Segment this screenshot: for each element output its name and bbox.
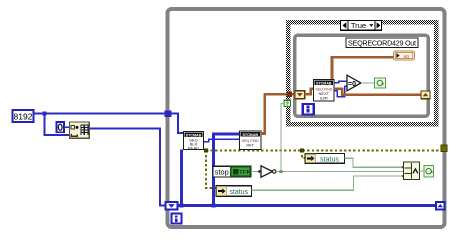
junction dot (43, 112, 47, 116)
label SEQRECORD429 Out (346, 38, 418, 48)
junction dot B (212, 204, 216, 208)
svg-text:STCMAB: STCMAB (242, 132, 258, 137)
error wire dashed horizontal (206, 149, 441, 151)
node U3 STCMAB SEQ FIND NEXT (314, 80, 335, 102)
shift register left (inner, orange) (295, 91, 305, 99)
tunnel brown on case border (286, 92, 292, 98)
svg-text:STCMAB: STCMAB (186, 132, 202, 137)
constant 0 (57, 122, 65, 132)
wire node3 brown output to right shift register (334, 89, 421, 95)
svg-text:8192: 8192 (14, 112, 33, 122)
iteration terminal i (inner) (303, 104, 314, 115)
svg-text:TF: TF (239, 170, 246, 176)
wire up to node2 (214, 134, 240, 206)
error tunnel on right border (441, 145, 447, 152)
wire init-array output down to left shift register (89, 129, 165, 206)
tunnel (8192 into loop) (165, 110, 172, 117)
junction dot error2 (300, 149, 304, 153)
iteration terminal i (outer) (172, 214, 182, 224)
wire status1 to compound AND (252, 176, 404, 190)
svg-text:status: status (229, 189, 248, 196)
wire NOT output to compound AND (276, 171, 404, 173)
error wire branch to status1 (206, 150, 216, 188)
svg-text:True: True (351, 21, 366, 30)
comparator =0? (347, 75, 361, 91)
wire node3 upper output to comparator (blue) (334, 81, 347, 83)
wire branch down to init node (45, 114, 70, 136)
wire node3 lower output to comparator (blue) (334, 86, 347, 97)
svg-text:=0: =0 (348, 81, 356, 88)
svg-text:STCMAB: STCMAB (316, 80, 332, 85)
wire compound to conditional (420, 170, 425, 172)
shift register right (outer, up arrow) (436, 202, 445, 210)
svg-text:INIT: INIT (246, 143, 254, 148)
NOT gate (258, 166, 276, 177)
wire node1 output to node2 (204, 139, 240, 142)
wire 8192 to tunnel (34, 113, 165, 115)
svg-text:stop: stop (215, 168, 229, 177)
shift register left (outer, down arrow) (166, 202, 178, 210)
junction dot error1 (204, 149, 208, 153)
indicator status (lower) (216, 186, 252, 197)
case structure border (hatched) (286, 20, 439, 127)
svg-text:?: ? (286, 101, 289, 107)
wire left SR to node3 (brown) (305, 89, 314, 95)
wire node3 up to indicator (brown) (332, 57, 394, 79)
svg-text:SZR: SZR (320, 96, 328, 101)
wire up to node1 (180, 149, 183, 205)
selector tunnel ? on case border (284, 100, 291, 107)
node U2 STCMAB SEQ FIND INIT (240, 131, 262, 149)
while loop (outer) frame (168, 9, 445, 227)
wire tunnel to left shift register (292, 93, 295, 96)
conditional terminal (inner loop) (375, 78, 386, 88)
wire up to selector tunnel (281, 103, 284, 171)
junction dot A (180, 204, 184, 208)
initialize array node (70, 122, 90, 138)
indicator terminal SEQRECORD429 Out (394, 51, 415, 60)
error wire branch to status2 (302, 150, 305, 158)
svg-text:SEQRECORD429 Out: SEQRECORD429 Out (348, 38, 416, 47)
indicator status (upper) (305, 154, 345, 164)
wire comparator to inner conditional (green) (361, 82, 375, 84)
constant 8192 (13, 110, 34, 122)
wire node2 output up to case tunnel (brown) (261, 94, 287, 133)
node U1 STCMAB BLK READ (184, 132, 204, 151)
svg-text:READ: READ (188, 145, 199, 150)
svg-text:str: str (404, 54, 410, 59)
wire status2 to compound AND (345, 158, 404, 167)
junction dot on NOT wire (279, 170, 282, 173)
wire stop to NOT (251, 171, 258, 173)
svg-text:status: status (320, 156, 339, 163)
compound arithmetic AND (402, 162, 420, 180)
wire 0 to init node (64, 126, 70, 128)
wire bottom array run (178, 204, 437, 207)
conditional terminal (outer loop) (424, 166, 434, 178)
while loop (inner) frame (295, 35, 429, 116)
wire inside loop from tunnel to node1 (172, 114, 184, 134)
case selector label True (341, 21, 382, 31)
control stop (213, 166, 251, 177)
shift register right (inner, orange) (421, 91, 430, 99)
